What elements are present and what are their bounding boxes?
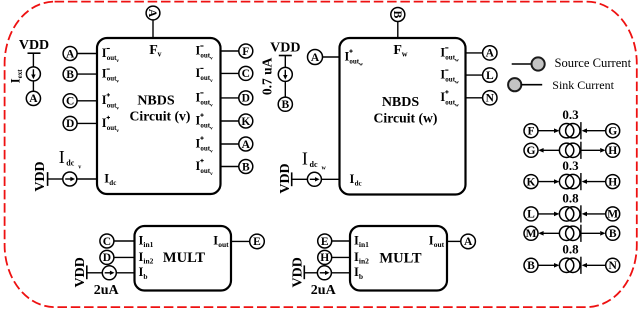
- svg-text:A: A: [311, 52, 320, 64]
- pin label I-out_v: [102, 46, 120, 64]
- node A (w output): [483, 46, 497, 60]
- svg-text:M: M: [607, 209, 618, 221]
- svg-text:H: H: [608, 176, 617, 188]
- svg-text:VDD: VDD: [19, 38, 49, 53]
- pin label I_b (mult1): [139, 265, 148, 281]
- wire with arrow into mirror: [538, 128, 559, 133]
- svg-text:MULT: MULT: [379, 251, 421, 267]
- node L (w output): [483, 68, 497, 82]
- value label 0.3: [562, 158, 579, 173]
- wire with arrow into mirror: [582, 263, 606, 268]
- wire: [332, 256, 350, 258]
- current mirror symbol (L-M): [559, 205, 581, 222]
- svg-text:A: A: [242, 139, 251, 151]
- power VDD (I_dc_w branch): [278, 163, 293, 193]
- wire F_w to top node B: [397, 22, 399, 39]
- pin label I-out_w (right): [440, 45, 459, 63]
- wire: [466, 74, 483, 76]
- pin label I_dc (v): [104, 171, 116, 187]
- node C (v output): [239, 66, 253, 80]
- svg-text:Sink Current: Sink Current: [552, 78, 614, 92]
- svg-text:w: w: [359, 62, 363, 68]
- svg-text:w: w: [455, 102, 459, 108]
- node H (mirror row right): [606, 175, 620, 189]
- svg-text:b: b: [359, 272, 363, 281]
- svg-text:in2: in2: [143, 257, 153, 266]
- wire with arrow into mirror: [538, 263, 559, 268]
- svg-text:I: I: [59, 147, 65, 167]
- node M (mirror row left): [524, 226, 538, 240]
- legend source current symbol: [512, 57, 545, 70]
- svg-text:2uA: 2uA: [311, 283, 337, 298]
- block MULT (1): [135, 226, 232, 291]
- wire: [114, 240, 135, 242]
- node B (mirror row right): [606, 226, 620, 240]
- value label 2uA: [94, 283, 120, 298]
- svg-text:A: A: [486, 48, 495, 60]
- wire mult1 out to node E: [231, 240, 250, 242]
- power VDD (mult2 bias): [291, 257, 306, 287]
- svg-text:K: K: [241, 116, 250, 128]
- wire 2uA source to block: [331, 272, 350, 274]
- svg-text:0.7 uA: 0.7 uA: [260, 57, 275, 95]
- wire: [77, 53, 97, 55]
- wire with arrow into mirror: [582, 212, 606, 217]
- node A (v input): [63, 47, 77, 61]
- node A (I_ext output): [26, 91, 40, 105]
- svg-text:in1: in1: [143, 240, 153, 249]
- pin label I+out_v (right): [196, 159, 214, 177]
- svg-text:G: G: [527, 145, 536, 157]
- pin label F_v: [149, 43, 161, 59]
- svg-text:VDD: VDD: [270, 41, 300, 56]
- svg-text:Source Current: Source Current: [555, 56, 632, 70]
- current mirror symbol (G-H): [559, 142, 581, 159]
- svg-text:v: v: [210, 78, 213, 84]
- svg-text:VDD: VDD: [33, 161, 48, 191]
- legend sink current symbol: [508, 78, 542, 91]
- svg-text:w: w: [402, 50, 408, 59]
- node B (v output): [239, 160, 253, 174]
- svg-text:C: C: [242, 68, 250, 80]
- pin label I-out_v (right): [196, 66, 214, 84]
- wire: [466, 52, 483, 54]
- node E (mult1 output): [250, 234, 265, 249]
- node D (v input): [63, 116, 77, 130]
- svg-text:L: L: [486, 70, 494, 82]
- pin label I-out_v (right): [196, 43, 214, 61]
- node F (v output): [239, 44, 253, 58]
- svg-text:dc: dc: [355, 179, 362, 187]
- pin label I+out_v (right): [196, 136, 214, 154]
- current source 2uA (mult1): [102, 266, 116, 280]
- legend label Sink Current: [552, 78, 614, 92]
- node A (F_v, rotated): [146, 6, 160, 20]
- svg-text:B: B: [281, 99, 289, 111]
- wire: [221, 120, 239, 122]
- wire: [221, 97, 239, 99]
- svg-text:0.8: 0.8: [562, 190, 579, 205]
- node A (mult2 output): [461, 234, 476, 249]
- svg-text:v: v: [116, 128, 119, 134]
- legend label Source Current: [555, 56, 632, 70]
- wire with arrow out of mirror: [581, 148, 606, 153]
- svg-text:v: v: [210, 102, 213, 108]
- svg-text:v: v: [210, 126, 213, 132]
- wire with arrow into mirror: [582, 179, 606, 184]
- wire with arrow into mirror: [582, 128, 606, 133]
- power VDD (I_ext branch): [19, 38, 49, 53]
- svg-text:D: D: [242, 93, 250, 105]
- svg-text:E: E: [321, 236, 329, 248]
- svg-text:F: F: [242, 46, 249, 58]
- node G (mirror row left): [524, 143, 538, 157]
- svg-text:dc: dc: [109, 179, 116, 187]
- pin label I_out (mult2): [429, 234, 445, 250]
- wire VDD to I_dc_w source: [292, 178, 308, 180]
- block NBDS Circuit (w): [340, 38, 466, 195]
- wire with arrow into mirror: [538, 212, 559, 217]
- svg-text:0.3: 0.3: [562, 107, 579, 122]
- current source I_dc_w: [307, 172, 321, 186]
- pin label I_in2 (mult2): [354, 250, 369, 266]
- wire 0.7uA source to node B: [284, 81, 286, 97]
- pin label I-out_v (right): [196, 90, 214, 108]
- svg-text:L: L: [527, 209, 535, 221]
- power VDD (0.7uA branch): [270, 41, 300, 56]
- svg-text:F: F: [393, 43, 402, 58]
- svg-text:out: out: [434, 240, 445, 249]
- svg-text:0.3: 0.3: [562, 158, 579, 173]
- pin label I+out_v (right): [196, 113, 214, 131]
- wire: [77, 100, 97, 102]
- label I_dc_v: [59, 147, 82, 170]
- svg-text:Circuit (v): Circuit (v): [130, 109, 191, 125]
- node N (w output): [483, 91, 497, 105]
- value label 2uA: [311, 283, 337, 298]
- pin label I_b (mult2): [354, 265, 363, 281]
- svg-text:B: B: [242, 161, 250, 173]
- wire with arrow out of mirror: [581, 231, 606, 236]
- node M (mirror row right): [606, 207, 620, 221]
- pin label I_in1 (mult1): [139, 233, 154, 249]
- svg-text:v: v: [116, 58, 119, 64]
- wire 2uA source to block: [116, 272, 134, 274]
- svg-text:M: M: [526, 228, 537, 240]
- svg-text:v: v: [78, 164, 81, 170]
- svg-text:VDD: VDD: [278, 163, 293, 193]
- wire VDD to mult1 source: [87, 272, 103, 274]
- node H (mult2 in2): [318, 250, 332, 264]
- node D (mult1 in2): [100, 250, 114, 264]
- svg-text:VDD: VDD: [291, 257, 306, 287]
- wire with arrow out of mirror: [538, 148, 559, 153]
- wire: [77, 122, 97, 124]
- svg-text:b: b: [143, 272, 147, 281]
- node G (mirror row right): [606, 124, 620, 138]
- node L (mirror row left): [524, 207, 538, 221]
- node A (v output): [239, 137, 253, 151]
- svg-text:A: A: [29, 93, 38, 105]
- svg-text:in1: in1: [359, 240, 369, 249]
- block NBDS Circuit (v): [97, 38, 221, 194]
- value label 0.8: [562, 190, 579, 205]
- node F (mirror row left): [524, 124, 538, 138]
- svg-text:E: E: [253, 236, 261, 248]
- current source I_ext: [9, 67, 41, 83]
- wire: [323, 56, 340, 58]
- pin label I+out_w: [345, 49, 364, 67]
- svg-text:F: F: [149, 43, 158, 58]
- svg-text:in2: in2: [359, 257, 369, 266]
- svg-text:v: v: [116, 105, 119, 111]
- svg-text:D: D: [66, 118, 74, 130]
- current mirror symbol (M-B): [559, 225, 581, 242]
- svg-text:Circuit (w): Circuit (w): [374, 110, 438, 126]
- wire mult2 out to node A: [447, 240, 461, 242]
- svg-text:w: w: [455, 80, 459, 86]
- current mirror symbol (B-N): [559, 257, 581, 274]
- svg-text:NBDS: NBDS: [382, 95, 420, 110]
- wire: [221, 72, 239, 74]
- block MULT (2): [350, 226, 447, 291]
- svg-text:A: A: [464, 236, 473, 248]
- node C (mult1 in1): [100, 234, 114, 248]
- pin label I_dc (w): [350, 172, 362, 188]
- node K (mirror row left): [524, 175, 538, 189]
- current mirror symbol (F-G): [559, 122, 581, 139]
- svg-text:B: B: [391, 11, 403, 19]
- svg-text:C: C: [66, 96, 74, 108]
- node N (mirror row right): [606, 258, 620, 272]
- label I_dc_w: [302, 148, 327, 171]
- node C (v input): [63, 94, 77, 108]
- svg-text:v: v: [210, 171, 213, 177]
- svg-text:B: B: [609, 228, 617, 240]
- node B (0.7uA output): [278, 97, 292, 111]
- svg-text:B: B: [527, 260, 535, 272]
- pin label I+out_w (right): [440, 90, 459, 108]
- wire VDD to mult2 source: [304, 272, 317, 274]
- pin label I+out_v: [102, 93, 120, 111]
- node B (v input): [63, 67, 77, 81]
- svg-text:w: w: [455, 57, 459, 63]
- current source 0.7 uA: [260, 57, 293, 95]
- node A (w input): [308, 50, 323, 65]
- svg-text:A: A: [66, 48, 75, 60]
- current mirror symbol (K-H): [559, 173, 581, 190]
- wire: [221, 50, 239, 52]
- pin label I_in1 (mult2): [354, 233, 369, 249]
- node E (mult2 in1): [318, 234, 332, 248]
- wire: [114, 256, 135, 258]
- pin label I_in2 (mult1): [139, 250, 154, 266]
- svg-text:A: A: [146, 9, 158, 18]
- svg-text:MULT: MULT: [163, 250, 205, 266]
- svg-text:2uA: 2uA: [94, 283, 120, 298]
- svg-text:0.8: 0.8: [562, 242, 579, 257]
- wire I_dc_w source to block: [321, 178, 339, 180]
- svg-text:N: N: [609, 260, 618, 272]
- svg-text:out: out: [218, 240, 229, 249]
- value label 0.3: [562, 107, 579, 122]
- svg-text:F: F: [527, 126, 534, 138]
- svg-text:VDD: VDD: [73, 257, 88, 287]
- value label 0.8: [562, 242, 579, 257]
- pin label I_out (mult1): [213, 234, 229, 250]
- svg-text:C: C: [103, 236, 111, 248]
- node K (v output): [239, 114, 253, 128]
- svg-text:H: H: [320, 252, 329, 264]
- wire: [221, 143, 239, 145]
- wire: [466, 97, 483, 99]
- svg-text:K: K: [527, 176, 536, 188]
- wire VDD to 0.7uA source: [284, 56, 286, 68]
- svg-text:D: D: [103, 252, 111, 264]
- svg-text:NBDS: NBDS: [137, 94, 175, 109]
- node H (mirror row right): [606, 143, 620, 157]
- svg-text:v: v: [210, 149, 213, 155]
- power VDD (mult1 bias): [73, 257, 88, 287]
- wire: [77, 73, 97, 75]
- node B (F_w, rotated): [391, 8, 405, 22]
- svg-text:B: B: [66, 69, 74, 81]
- svg-text:dc: dc: [310, 160, 318, 169]
- svg-text:I: I: [302, 148, 308, 168]
- wire with arrow into mirror: [538, 179, 559, 184]
- wire with arrow out of mirror: [538, 231, 559, 236]
- svg-text:G: G: [608, 126, 617, 138]
- wire VDD to I_ext source: [32, 53, 34, 67]
- svg-text:H: H: [608, 145, 617, 157]
- svg-text:dc: dc: [66, 159, 74, 168]
- wire I_dc_v source to block: [77, 178, 97, 180]
- svg-text:v: v: [158, 50, 162, 59]
- current source 2uA (mult2): [317, 266, 331, 280]
- wire: [332, 240, 350, 242]
- pin label I-out_w (right): [440, 68, 459, 86]
- pin label F_w: [393, 43, 407, 59]
- current source I_dc_v: [63, 172, 77, 186]
- pin label I-out_v: [102, 67, 120, 85]
- wire: [221, 166, 239, 168]
- wire I_ext source to node A: [32, 81, 34, 91]
- svg-text:N: N: [486, 93, 495, 105]
- svg-text:v: v: [116, 79, 119, 85]
- svg-text:w: w: [322, 166, 327, 172]
- wire VDD to I_dc_v source: [48, 178, 63, 180]
- svg-text:v: v: [210, 56, 213, 62]
- pin label I+out_v: [102, 116, 120, 134]
- wire F_v to top node A: [152, 20, 154, 38]
- power VDD (I_dc_v branch): [33, 161, 48, 191]
- node D (v output): [239, 91, 253, 105]
- node B (mirror row left): [524, 258, 538, 272]
